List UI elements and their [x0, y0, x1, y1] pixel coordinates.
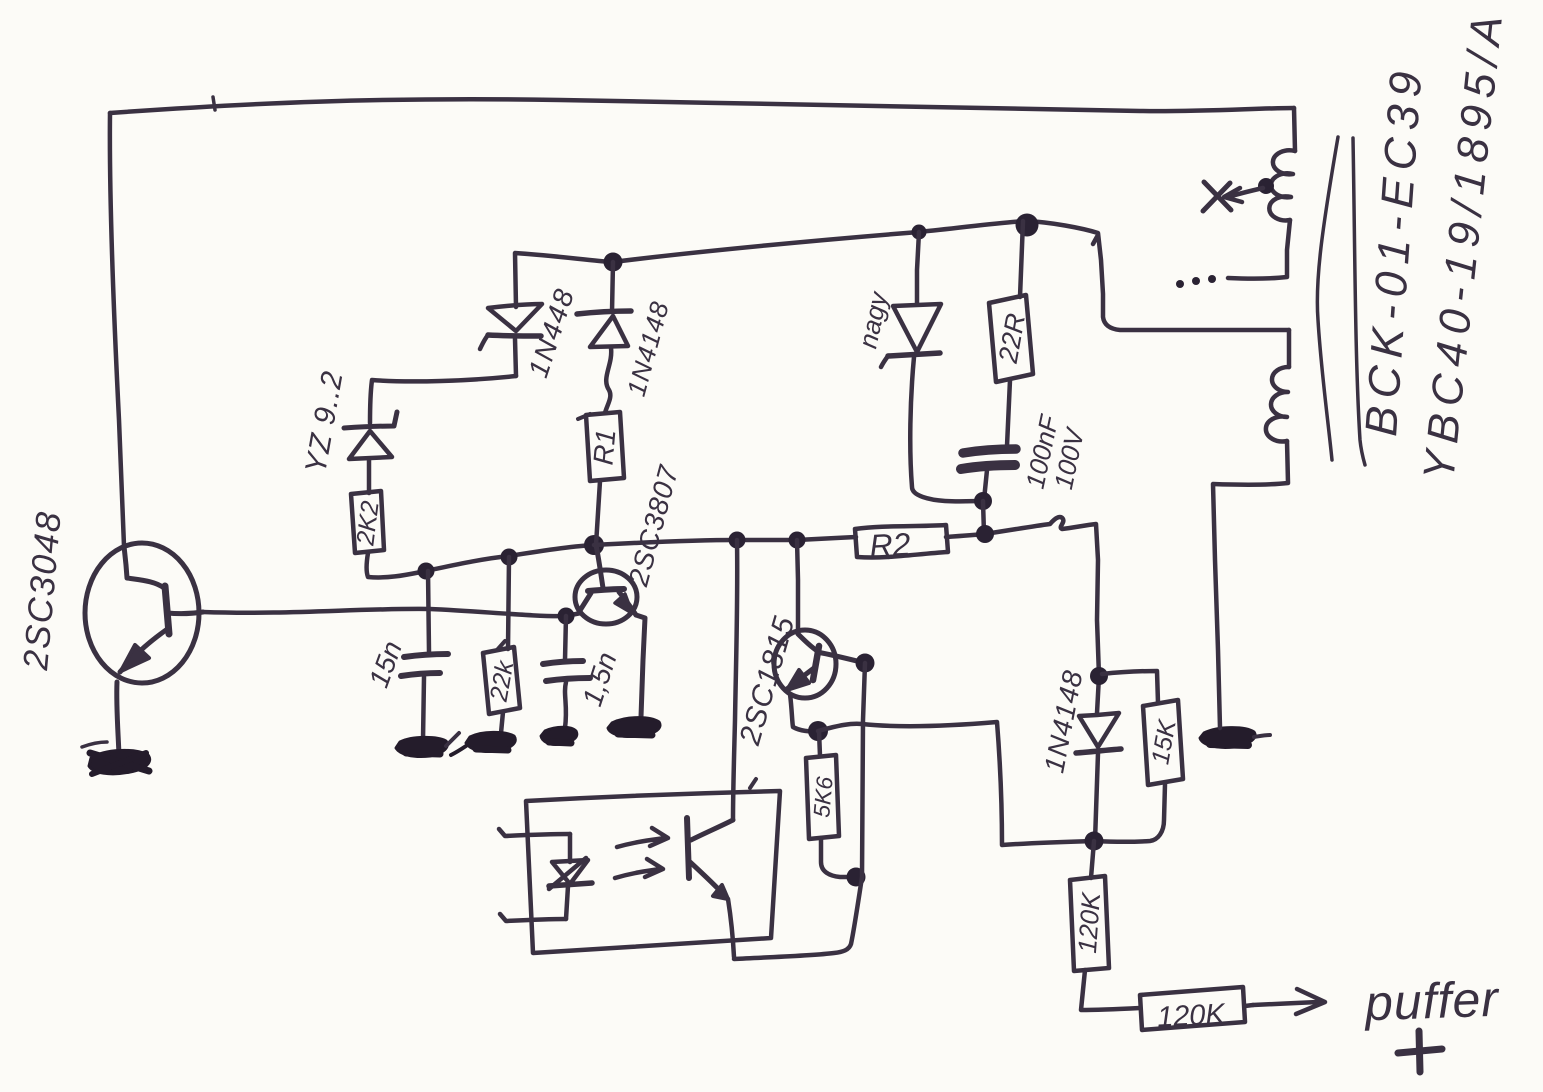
- transistor Q1 2SC3048: [16, 509, 203, 683]
- resistor 22R: [989, 221, 1033, 446]
- wire top rail: [110, 99, 1294, 113]
- svg-text:2SC3807: 2SC3807: [622, 461, 684, 590]
- resistor R1: [578, 412, 624, 481]
- resistor 2K2: [351, 491, 385, 553]
- node cap bottom: [974, 492, 992, 510]
- wire pen tick on top rail: [213, 97, 215, 110]
- svg-text:nagy: nagy: [852, 288, 893, 351]
- svg-text:120K: 120K: [1072, 890, 1106, 954]
- wire cap node to R2 rail: [983, 501, 984, 534]
- resistor 15K: [1095, 671, 1183, 842]
- svg-text:R2: R2: [869, 526, 912, 564]
- transformer secondary winding: [1213, 330, 1289, 728]
- ground transformer return: [1200, 728, 1270, 748]
- wire Q1 emitter lead: [117, 682, 119, 755]
- node Q3 base top: [789, 532, 806, 549]
- wire Q1 base rail: [203, 609, 581, 616]
- svg-text:15K: 15K: [1146, 717, 1182, 767]
- node nagy top: [912, 225, 927, 240]
- capacitor 100nF 100V: [961, 411, 1091, 500]
- node 15n top: [418, 563, 435, 580]
- svg-text:22R: 22R: [993, 311, 1031, 366]
- node Q3 emitter / 5K6 top: [808, 721, 828, 741]
- node 22K top: [501, 549, 518, 566]
- resistor 22K: [483, 557, 520, 733]
- resistor 120K vertical: [1070, 841, 1140, 1010]
- node Q3 collector: [856, 654, 875, 673]
- wire D1 to zener: [370, 376, 516, 423]
- ground 1.5n: [541, 727, 577, 744]
- diode D2 1N4148: [577, 262, 675, 413]
- svg-text:YZ 9..2: YZ 9..2: [299, 368, 350, 476]
- wire R1 junction rail right: [594, 537, 856, 545]
- ground 22K: [451, 732, 515, 755]
- svg-text:5K6: 5K6: [808, 775, 837, 818]
- arrow to puffer: [1253, 989, 1325, 1014]
- primary tap arrow with X: [1203, 182, 1263, 211]
- opto light arrows: [615, 828, 668, 878]
- ground Q2 collector: [608, 718, 660, 737]
- wire emitter node to D5 bottom junction: [818, 722, 1094, 845]
- node R2 right: [976, 525, 994, 543]
- ground 15n: [396, 733, 459, 757]
- svg-text:BCK-01-EC39: BCK-01-EC39: [1355, 62, 1432, 438]
- svg-text:1,5n: 1,5n: [576, 648, 622, 709]
- resistor R2: [855, 525, 948, 564]
- zener D3 YZ9..2: [299, 368, 397, 493]
- wire Q3 emitter to node: [790, 694, 818, 731]
- wire Q3 collector down to opto emitter: [734, 663, 865, 959]
- capacitor 1.5n: [543, 616, 623, 728]
- wire R1 bottom: [596, 481, 600, 545]
- diode D5 1N4148: [1038, 667, 1121, 841]
- node D5 bottom junction: [1085, 832, 1104, 851]
- node 22R top: [1016, 214, 1039, 237]
- resistor 120K horizontal: [1140, 987, 1253, 1034]
- transistor Q2 2SC3807: [575, 461, 685, 717]
- diode D4 nagy: [852, 232, 941, 367]
- svg-text:1N448: 1N448: [522, 284, 580, 382]
- node D5 top junction: [1090, 667, 1108, 685]
- svg-text:R1: R1: [587, 428, 621, 466]
- node 1.5n top: [558, 608, 575, 625]
- opto phototransistor: [687, 540, 737, 957]
- node D2 top: [604, 253, 623, 272]
- wire left rail: [110, 113, 124, 546]
- transformer primary winding: [1228, 108, 1295, 279]
- svg-text:22k: 22k: [485, 657, 520, 704]
- wire second rail from D1 to transformer: [515, 221, 1289, 330]
- svg-text:puffer: puffer: [1362, 971, 1501, 1032]
- label transformer part numbers: [1355, 5, 1513, 482]
- capacitor 15n: [363, 571, 448, 740]
- svg-text:2SC3048: 2SC3048: [16, 509, 69, 673]
- transformer core lines: [1317, 137, 1365, 465]
- wire nagy cathode down to cap node: [910, 357, 982, 501]
- node opto collector: [729, 532, 746, 549]
- ground Q1: [82, 742, 150, 774]
- label puffer: [1362, 971, 1501, 1072]
- transistor Q3 2SC1815: [733, 540, 865, 749]
- optocoupler box: [526, 779, 780, 953]
- resistor 5K6: [806, 731, 852, 877]
- wire R2 right to D5 top junction: [946, 517, 1099, 676]
- dots continuation: [1176, 275, 1216, 288]
- svg-text:15n: 15n: [363, 637, 408, 692]
- opto LED: [549, 834, 592, 919]
- wire 2K2 bottom to R1 junction: [367, 545, 595, 577]
- node primary tap: [1258, 178, 1274, 194]
- node 5K6 bottom: [847, 868, 866, 887]
- node R1 bottom junction: [584, 535, 604, 555]
- opto LED input stubs: [499, 829, 570, 921]
- svg-text:2K2: 2K2: [351, 499, 384, 548]
- diode D1 1N448: [480, 284, 580, 382]
- svg-text:120K: 120K: [1156, 998, 1227, 1034]
